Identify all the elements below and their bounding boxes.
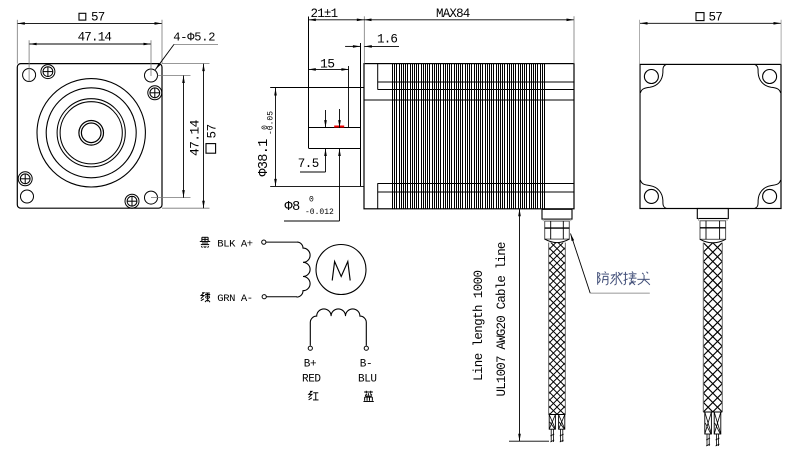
svg-text:Φ38.1: Φ38.1 [257,139,272,177]
svg-text:7.5: 7.5 [298,157,319,171]
svg-text:BLU: BLU [358,373,377,385]
svg-text:4-Φ5.2: 4-Φ5.2 [173,31,215,45]
svg-text:RED: RED [302,373,321,385]
svg-text:0: 0 [309,196,314,205]
svg-text:Φ8: Φ8 [285,200,301,215]
svg-text:1.6: 1.6 [377,32,397,46]
svg-text:47.14: 47.14 [78,30,112,44]
svg-text:57: 57 [91,10,105,24]
svg-text:57: 57 [205,124,219,138]
svg-text:21±1: 21±1 [311,7,338,21]
svg-text:BLK A+: BLK A+ [217,238,253,250]
svg-text:MAX84: MAX84 [436,7,470,21]
svg-text:57: 57 [709,11,723,25]
svg-text:47.14: 47.14 [188,119,203,156]
svg-text:B-: B- [360,359,372,371]
svg-text:-0.012: -0.012 [305,208,334,217]
svg-text:GRN A-: GRN A- [217,293,252,305]
svg-text:B+: B+ [304,359,316,371]
svg-text:Line length 1000: Line length 1000 [472,270,486,381]
svg-text:UL1007 AWG20 Cable line: UL1007 AWG20 Cable line [495,242,509,396]
svg-text:15: 15 [320,56,335,71]
svg-text:-0.05: -0.05 [266,111,275,135]
